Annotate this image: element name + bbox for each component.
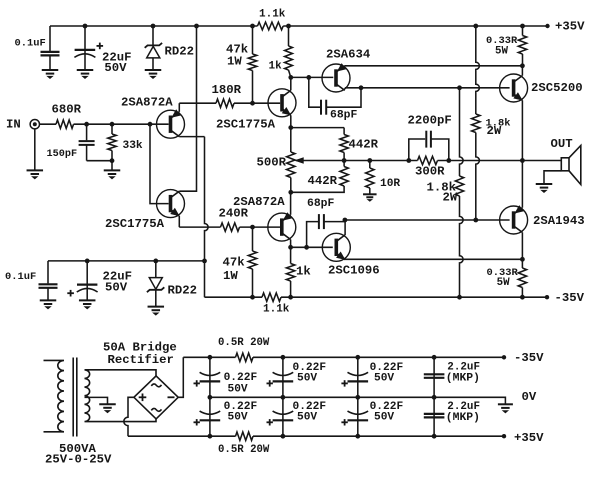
wire 2SA634 base row	[291, 76, 334, 78]
wire lower decoupling rail	[48, 260, 205, 262]
wire Q3 emitter down	[290, 115, 292, 127]
transistor Q7 2SC1096	[322, 233, 350, 261]
node rail/collector column tap (+35V rail)	[194, 24, 199, 29]
capacitor 2.2uF MKP (top)	[433, 357, 435, 397]
node bias column tap (+35V rail)	[473, 24, 478, 29]
transistor Q3 2SC1775A (VAS upper)	[268, 89, 296, 117]
zener diode RD22 (lower)	[155, 261, 157, 278]
wire Q8 collector down	[521, 232, 523, 259]
svg-text:442R: 442R	[349, 138, 379, 152]
node 68pF tap (lower)	[304, 245, 309, 250]
node 33k junction	[110, 122, 115, 127]
svg-text:-35V: -35V	[555, 291, 585, 305]
bridge - mark	[168, 396, 175, 398]
ground (22uF top)	[77, 69, 94, 71]
wire mid rail right of 300R	[438, 160, 523, 162]
svg-text:2W: 2W	[443, 190, 458, 204]
wire Q1 collector to right column	[179, 136, 204, 138]
svg-text:442R: 442R	[308, 174, 338, 188]
node -35V row end	[545, 295, 549, 299]
node 1k tap (+35V rail)	[286, 24, 291, 29]
wire Q6 collector up	[521, 66, 523, 76]
node 47k/180R junction	[250, 101, 255, 106]
node PSU -35V rail junction 4	[432, 355, 437, 360]
wire lower base row to 2SA1943	[345, 219, 510, 221]
transformer core	[72, 358, 74, 437]
zener diode RD22 (top)	[152, 26, 154, 45]
node emitter rail / 2SA1943 collector junction	[520, 257, 525, 262]
svg-text:0V: 0V	[522, 390, 537, 404]
node 1k lower tap (-35V row)	[288, 295, 293, 300]
svg-text:50V: 50V	[105, 281, 128, 295]
node Q3 collector / 1k junction	[288, 75, 293, 80]
resistor 47k 1W (lower)	[252, 227, 254, 251]
resistor 0.33R 5W (upper)	[522, 26, 524, 36]
svg-text:+35V: +35V	[514, 431, 544, 445]
ground (0.1uF top)	[42, 69, 59, 71]
node 0.33R lower tap (-35V row)	[520, 295, 525, 300]
node Q5 collector junction	[288, 245, 293, 250]
svg-text:1W: 1W	[227, 55, 242, 69]
bridge ~ mark (bottom)	[151, 408, 161, 411]
node 47k tap (+35V rail)	[250, 24, 255, 29]
transistor Q1 2SA872A (input upper)	[157, 110, 185, 138]
wire Q3 collector up	[290, 77, 292, 90]
svg-text:25V-0-25V: 25V-0-25V	[45, 453, 112, 467]
svg-text:Rectifier: Rectifier	[108, 353, 174, 367]
svg-text:(MKP): (MKP)	[446, 372, 480, 384]
wire Q7 emitter rail	[345, 258, 522, 260]
wire Q7 collector up	[344, 220, 346, 235]
node 0.33R tap (+35V rail)	[520, 24, 525, 29]
transformer primary winding	[44, 360, 65, 431]
wire speaker return to ground	[544, 171, 561, 184]
svg-text:2W: 2W	[487, 124, 502, 138]
svg-text:0.22F: 0.22F	[224, 372, 258, 384]
node PSU 0V rail junction 2	[281, 395, 286, 400]
node 33k bottom junction	[110, 158, 115, 163]
ground (33k)	[104, 169, 121, 171]
wire Q1 emitter up to 180R row	[178, 103, 180, 112]
wire 1.8k upper to base row (hop over output rail)	[476, 133, 480, 221]
svg-text:50V: 50V	[228, 411, 248, 423]
capacitor 0.1uF (top left)	[49, 26, 51, 51]
wire 240R to Q5 base	[240, 226, 281, 228]
node 10R junction	[367, 158, 372, 163]
resistor 1k (upper)	[288, 26, 290, 46]
resistor 442R (upper)	[343, 128, 345, 135]
capacitor 2200pF	[409, 139, 425, 161]
resistor 0.33R 5W (lower)	[521, 259, 523, 268]
wire 33k to ground	[111, 161, 113, 170]
wire PSU +35V rail left	[128, 435, 236, 437]
capacitor 0.22F 50V (bottom row, first)	[209, 397, 211, 436]
svg-text:2SC1775A: 2SC1775A	[105, 217, 165, 231]
transformer secondary winding	[85, 370, 157, 422]
svg-text:5W: 5W	[497, 277, 510, 289]
wire Q6 emitter down to OUT	[521, 100, 523, 160]
node 150pF junction	[84, 122, 89, 127]
node PSU +35V rail junction 2	[281, 434, 286, 439]
svg-text:50V: 50V	[297, 411, 317, 423]
ground (0.1uF lower)	[40, 299, 57, 301]
svg-text:-35V: -35V	[514, 351, 544, 365]
wire 180R row left	[179, 102, 216, 104]
resistor 300R	[418, 156, 438, 164]
wire PSU -35V rail	[183, 356, 235, 358]
wire PSU +35V rail right	[253, 435, 504, 437]
wire Q5 emitter up	[290, 192, 292, 214]
node RD22 tap (+35V rail)	[151, 24, 156, 29]
node driver rail junction	[457, 85, 462, 90]
svg-text:IN: IN	[6, 118, 21, 132]
node PSU +35V rail junction 4	[432, 434, 437, 439]
capacitor 0.22F 50V (top row, second)	[282, 357, 284, 397]
node 1.8k lower base junction	[473, 218, 478, 223]
node PSU 0V rail junction 1	[208, 395, 213, 400]
node PSU 0V rail junction 4	[432, 395, 437, 400]
svg-text:0.5R 20W: 0.5R 20W	[218, 444, 270, 456]
svg-text:33k: 33k	[123, 140, 143, 152]
capacitor 2.2uF MKP (bottom)	[433, 397, 435, 436]
wire OUT	[522, 160, 561, 162]
node PSU +35V end	[502, 434, 506, 438]
node driver column tap (-35V row)	[457, 295, 462, 300]
svg-text:300R: 300R	[415, 165, 445, 179]
svg-text:68pF: 68pF	[330, 109, 358, 121]
svg-text:0.5R 20W: 0.5R 20W	[218, 337, 270, 349]
svg-text:150pF: 150pF	[47, 149, 78, 160]
node 240R right junction	[250, 225, 255, 230]
wire 680R to input transistor base	[74, 123, 169, 125]
wire Q7 base row	[291, 246, 333, 248]
svg-text:2SA634: 2SA634	[326, 48, 371, 62]
wire 240R row left segment	[179, 226, 220, 228]
ground (speaker)	[536, 183, 553, 185]
ground (RD22 lower)	[148, 306, 165, 308]
wire driver column (hops, with 1.8k lower)	[460, 88, 464, 176]
svg-text:50V: 50V	[104, 61, 127, 75]
resistor 680R	[56, 120, 74, 128]
wire secondary center tap	[85, 397, 108, 403]
node PSU 0V rail junction 3	[355, 395, 360, 400]
ground (10R)	[363, 193, 377, 195]
transistor Q2 2SC1775A (input lower)	[157, 190, 185, 218]
resistor 1.1k (top rail)	[258, 22, 284, 30]
ground (22uF lower)	[79, 299, 96, 301]
capacitor 22uF 50V (top)	[84, 26, 86, 70]
resistor 47k 1W (upper)	[252, 26, 254, 54]
node 47k lower tap (-35V row)	[250, 295, 255, 300]
svg-text:680R: 680R	[52, 102, 82, 116]
svg-text:RD22: RD22	[168, 284, 198, 298]
svg-text:500R: 500R	[257, 155, 287, 169]
wire Q2 emitter down to 240R row	[178, 216, 180, 227]
wire column B down to -35V row (with hop over 240R row)	[205, 137, 209, 298]
wire input connector to ground	[34, 129, 36, 170]
wire Q3 emitter to 442R upper	[291, 127, 344, 129]
bridge + mark	[139, 396, 147, 398]
node +35V rail end	[545, 24, 549, 28]
node RD22 lower junction	[153, 259, 158, 264]
wire Q5 collector down	[290, 240, 292, 248]
node PSU +35V rail junction 1	[208, 434, 213, 439]
svg-text:OUT: OUT	[551, 137, 574, 151]
node PSU +35V rail junction 3	[355, 434, 360, 439]
node PSU -35V rail junction 1	[208, 355, 213, 360]
capacitor 68pF (upper)	[309, 77, 320, 107]
svg-text:0.1uF: 0.1uF	[15, 38, 46, 50]
node 22uF tap (+35V rail)	[83, 24, 88, 29]
wire +35V top rail left segment	[50, 25, 258, 27]
wire bias column from +35V (hops, with 1.8k upper)	[476, 26, 480, 114]
node IN input connector	[30, 120, 39, 129]
capacitor 150pF	[86, 124, 88, 140]
ground (RD22 top)	[145, 69, 162, 71]
svg-text:2SA1943: 2SA1943	[533, 214, 585, 228]
wire 180R to Q3 base	[234, 102, 280, 104]
svg-text:1k: 1k	[296, 265, 311, 279]
svg-text:1k: 1k	[269, 61, 283, 73]
resistor 10R	[369, 161, 371, 169]
capacitor 0.22F 50V (bottom row, second)	[282, 397, 284, 436]
node 300R left junction	[406, 158, 411, 163]
svg-text:2SC1096: 2SC1096	[328, 263, 380, 277]
node PSU -35V end	[502, 355, 506, 359]
resistor 1k (lower)	[290, 247, 292, 263]
node 22uF lower junction	[85, 259, 90, 264]
transistor Q6 2SC5200	[500, 74, 528, 102]
resistor 1.8k 2W (lower)	[455, 176, 463, 196]
svg-text:50V: 50V	[374, 372, 394, 384]
resistor 1.1k (bottom row)	[262, 293, 281, 301]
node Q7 collector junction	[343, 218, 348, 223]
wiper arrow (500R)	[296, 158, 304, 163]
svg-text:1.1k: 1.1k	[259, 8, 286, 20]
wire base link Q1-Q2	[150, 124, 169, 203]
capacitor 0.22F 50V (top row, third)	[357, 357, 359, 397]
svg-text:5W: 5W	[495, 46, 508, 58]
svg-text:2SC5200: 2SC5200	[531, 81, 583, 95]
node 500R bottom junction	[288, 190, 293, 195]
svg-text:50V: 50V	[297, 372, 317, 384]
ground (center tap)	[99, 403, 116, 405]
bridge ~ mark (top)	[151, 384, 161, 387]
wire IN to 680R	[40, 123, 57, 125]
svg-text:2SA872A: 2SA872A	[121, 95, 173, 109]
capacitor 0.22F 50V (top row, first)	[209, 357, 211, 397]
node column B to decoupling rail junction	[202, 259, 207, 264]
svg-text:2200pF: 2200pF	[408, 113, 452, 127]
svg-text:(MKP): (MKP)	[446, 412, 480, 424]
svg-text:2SA872A: 2SA872A	[233, 195, 285, 209]
resistor 0.5R 20W (bottom)	[236, 432, 254, 440]
resistor 33k	[111, 124, 113, 134]
svg-text:180R: 180R	[212, 83, 242, 97]
bridge rectifier diamond	[134, 376, 178, 419]
resistor 0.5R 20W (top)	[236, 353, 254, 361]
wire -35V amp row left	[205, 296, 263, 298]
svg-text:50V: 50V	[228, 383, 248, 395]
svg-text:10R: 10R	[380, 178, 400, 190]
wire Q4 collector rail to 2SC5200 base	[345, 87, 510, 89]
node PSU -35V rail junction 2	[281, 355, 286, 360]
transistor Q4 2SA634	[322, 64, 350, 92]
node 0.33R bottom junction	[520, 63, 525, 68]
svg-text:50V: 50V	[374, 411, 394, 423]
svg-text:1W: 1W	[223, 269, 238, 283]
capacitor 0.22F 50V (bottom row, third)	[357, 397, 359, 436]
node base link junction	[148, 122, 153, 127]
wire PSU -35V rail right	[253, 356, 504, 358]
transistor Q8 2SA1943	[500, 206, 528, 234]
resistor 442R (lower)	[343, 161, 345, 167]
wire -35V amp row right	[281, 296, 547, 298]
wire +35V top rail right segment	[283, 25, 547, 27]
resistor 180R	[216, 99, 234, 107]
wire Q8 emitter up to OUT	[521, 161, 523, 208]
svg-text:0.1uF: 0.1uF	[5, 271, 36, 283]
transistor Q5 2SA872A (VAS lower)	[268, 213, 296, 241]
node OUT junction	[520, 158, 525, 163]
svg-text:2SC1775A: 2SC1775A	[216, 118, 276, 132]
potentiometer 500R	[290, 128, 292, 152]
wire Q2 collector up rail	[179, 26, 196, 191]
svg-text:RD22: RD22	[165, 44, 195, 58]
node PSU -35V rail junction 3	[355, 355, 360, 360]
wire 1.8k lower down to -35V row (hops)	[460, 196, 464, 297]
speaker	[561, 158, 569, 171]
node 300R right junction	[446, 158, 451, 163]
node Q3 emitter junction	[288, 125, 293, 130]
ground (input)	[27, 169, 44, 171]
svg-text:1.1k: 1.1k	[263, 304, 290, 316]
node 68pF right junction	[359, 85, 364, 90]
svg-text:+35V: +35V	[555, 20, 585, 34]
wire Q4 emitter rail to output stage	[345, 65, 523, 67]
node 442R junction	[342, 158, 347, 163]
resistor 240R	[221, 223, 240, 231]
wire feedback mid rail	[296, 160, 418, 162]
resistor 1.8k 2W (upper)	[472, 114, 480, 132]
svg-text:47k: 47k	[223, 256, 246, 270]
capacitor 0.1uF (lower)	[47, 261, 49, 284]
wire PSU 0V rail	[210, 397, 506, 404]
wire bridge - output up to -35V rail	[178, 357, 183, 397]
ground (0V)	[498, 403, 513, 405]
svg-text:68pF: 68pF	[307, 198, 335, 210]
wire bridge + output down to +35V rail (hop over secondary lead)	[124, 397, 134, 436]
node 68pF tap (upper)	[306, 75, 311, 80]
capacitor 22uF 50V (lower)	[86, 261, 88, 300]
capacitor 68pF (lower)	[307, 222, 319, 248]
